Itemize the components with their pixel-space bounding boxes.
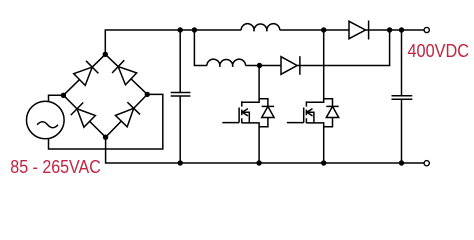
svg-text:400VDC: 400VDC <box>408 40 470 61</box>
svg-text:85 - 265VAC: 85 - 265VAC <box>10 156 101 177</box>
